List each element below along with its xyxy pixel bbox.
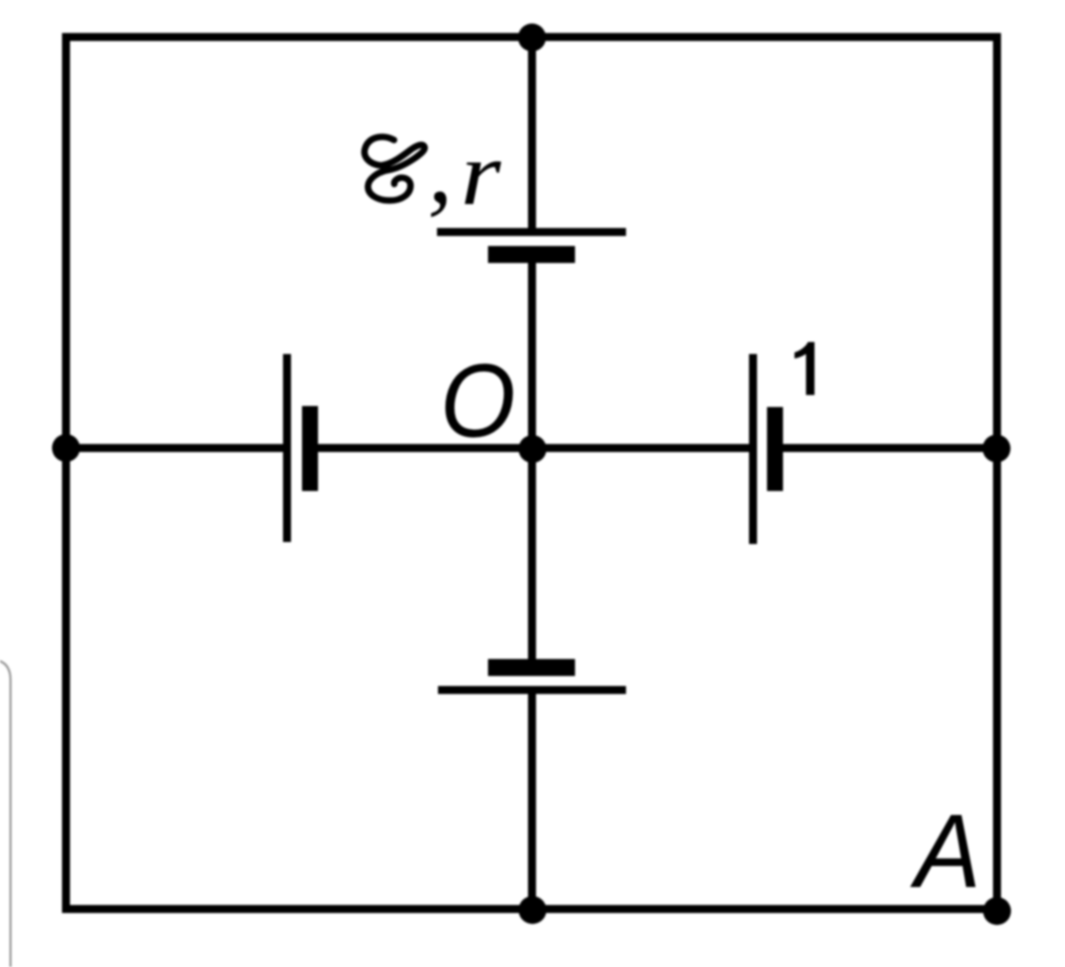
svg-text:,: , (428, 113, 453, 224)
svg-text:O: O (440, 343, 515, 459)
svg-text:A: A (909, 792, 981, 909)
svg-text:r: r (461, 124, 503, 223)
